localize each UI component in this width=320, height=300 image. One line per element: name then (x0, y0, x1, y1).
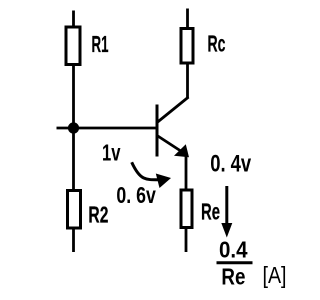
svg-text:0. 6v: 0. 6v (116, 182, 156, 208)
wire from supply to Rc top (186, 9, 189, 30)
resistor Re (181, 190, 192, 228)
wire stub left of node A (57, 127, 74, 130)
transistor Q1 base bar (156, 105, 159, 157)
wire base: node A to transistor base (74, 127, 157, 130)
svg-text:Re: Re (201, 199, 220, 225)
transistor Q1 emitter lead (157, 136, 180, 151)
wire Re bottom (185, 228, 188, 253)
wire R2 bottom (72, 228, 75, 252)
label Rc (208, 31, 226, 57)
fraction bar (217, 261, 253, 264)
svg-text:[A]: [A] (263, 262, 287, 288)
label 0.6v base-emitter drop (116, 182, 156, 208)
label Re (201, 199, 220, 225)
label [A] unit amperes (263, 262, 287, 288)
annotation arrow down for emitter current (221, 186, 232, 238)
label R1 (92, 31, 109, 57)
wire from supply to R1 top (72, 11, 75, 27)
svg-text:0. 4v: 0. 4v (210, 151, 251, 178)
label R2 (88, 202, 108, 228)
svg-text:Re: Re (221, 264, 245, 290)
fraction denominator Re (221, 264, 245, 290)
svg-text:R1: R1 (92, 31, 109, 57)
label 1v base voltage (102, 140, 121, 166)
node A junction dot (68, 122, 79, 133)
transistor Q1 emitter arrowhead (174, 144, 189, 157)
fraction numerator 0.4 (219, 237, 248, 263)
wire R1 bottom to R2 top (72, 65, 75, 191)
svg-text:R2: R2 (88, 202, 108, 228)
wire Rc bottom to collector bend (186, 63, 189, 98)
resistor R1 (66, 27, 80, 65)
annotation curved arrow from 1v to 0.6v (132, 162, 171, 188)
wire emitter to Re top (185, 156, 188, 192)
resistor Rc (181, 29, 193, 64)
svg-text:0.4: 0.4 (219, 237, 248, 263)
transistor Q1 collector lead (157, 97, 189, 123)
resistor R2 (68, 191, 81, 229)
svg-text:1v: 1v (102, 140, 121, 166)
svg-text:Rc: Rc (208, 31, 226, 57)
label 0.4v emitter voltage (210, 151, 251, 178)
